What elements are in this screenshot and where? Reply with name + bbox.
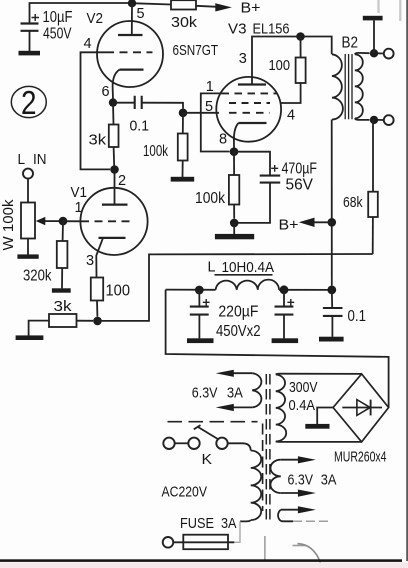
wire 220uF first to ground xyxy=(198,315,200,339)
junction node 220uF second xyxy=(280,285,289,294)
wire node to ground xyxy=(233,223,235,234)
resistor 100 cathode V1 body xyxy=(91,278,103,301)
ground of 100k grid xyxy=(171,177,195,182)
tube V3 envelope xyxy=(216,77,281,142)
svg-text:B+: B+ xyxy=(241,0,261,17)
winding 6.3V right lower xyxy=(278,510,281,521)
wire 300V top lead to bridge top xyxy=(276,373,362,376)
bridge diode triangle xyxy=(357,400,370,416)
scan artifact circle arc next figure xyxy=(298,544,321,563)
resistor 100k grid body xyxy=(178,134,188,161)
tube V1 cathode lead pin 3 xyxy=(96,238,103,278)
wire dot to terminal top xyxy=(378,52,384,54)
svg-text:8: 8 xyxy=(219,132,227,148)
capacitor 470uF plus sign xyxy=(271,165,278,172)
svg-text:FUSE: FUSE xyxy=(180,515,214,532)
tube V1 cathode bar xyxy=(99,237,126,239)
figure number circle 2 xyxy=(11,86,46,117)
junction node plate wire / 100 resistor xyxy=(296,32,305,41)
resistor 320k body xyxy=(57,241,68,268)
B+ arrow mid dot xyxy=(328,218,337,227)
svg-text:L: L xyxy=(18,151,26,168)
wire B2 secondary bottom lead xyxy=(355,118,370,120)
svg-text:100: 100 xyxy=(106,283,131,300)
svg-text:L: L xyxy=(208,259,216,276)
tube V1 plate lead pin 2 xyxy=(114,170,116,205)
switch K terminal 1 xyxy=(163,438,174,449)
terminal circle output top xyxy=(384,49,394,59)
svg-text:6SN7GT: 6SN7GT xyxy=(173,42,219,59)
wire top B+ rail from C 10uF to 30k xyxy=(30,3,172,24)
capacitor 220uF second plus sign xyxy=(287,299,294,306)
bridge diode symbol line xyxy=(342,407,382,409)
svg-text:3A: 3A xyxy=(321,471,337,488)
wire B+ rail drop to main horizontal line xyxy=(166,290,389,408)
primary winding bottom lead xyxy=(240,520,251,521)
wire 6.3V mid top lead xyxy=(281,459,299,461)
potentiometer wiper arrow head xyxy=(36,217,46,225)
svg-text:450Vx2: 450Vx2 xyxy=(216,323,261,340)
resistor 3k V2 cathode body xyxy=(109,125,119,148)
wire V3 plate pin 3 up and right to B2 xyxy=(252,37,332,85)
arrow 6.3V mid bottom xyxy=(298,490,316,497)
resistor 100k cathode body xyxy=(229,175,239,205)
resistor 30k body xyxy=(171,0,196,9)
svg-text:3: 3 xyxy=(239,51,247,67)
ground of 220uF second xyxy=(272,338,299,343)
wire bridge left corner to ground xyxy=(317,408,333,425)
wire 30k to B+ arrow xyxy=(196,6,217,7)
junction node V3 cathode xyxy=(230,147,239,156)
switch K terminal 3 xyxy=(216,438,227,449)
svg-text:5: 5 xyxy=(205,99,213,115)
fuse terminal circle xyxy=(163,537,174,548)
dashed linkage line of switch K xyxy=(168,421,258,423)
junction node 220uF first xyxy=(195,286,204,295)
bottom rule line xyxy=(0,559,402,562)
B+ arrow mid head xyxy=(299,218,315,227)
tube V3 grid3 dashes row xyxy=(229,112,270,114)
tube V1 plate bar xyxy=(102,203,128,205)
svg-text:10H0.4A: 10H0.4A xyxy=(222,259,275,276)
wire V2 grid pin 4 down to V1 plate node xyxy=(81,52,111,169)
svg-text:5: 5 xyxy=(137,6,145,22)
ground of C 10uF xyxy=(19,51,41,56)
junction node secondary top xyxy=(370,49,378,57)
junction node secondary bottom xyxy=(370,116,378,124)
svg-text:W 100k: W 100k xyxy=(1,199,17,251)
wire switch to primary winding xyxy=(228,443,251,450)
switch K terminal 2 xyxy=(188,438,199,449)
wire 300V bottom lead to bridge bottom xyxy=(276,440,362,443)
wire node to 220uF first xyxy=(198,290,200,306)
fuse body rectangle xyxy=(183,535,228,550)
svg-text:100k: 100k xyxy=(195,190,226,207)
wire 3k left to ground xyxy=(29,321,49,336)
capacitor 470uF plates xyxy=(260,176,281,183)
svg-text:EL156: EL156 xyxy=(253,21,290,38)
arrow 6.3V mid top xyxy=(298,456,316,463)
wire input to potentiometer xyxy=(27,179,29,203)
tube V2 plate bar xyxy=(118,34,143,36)
tube V3 grid1 dashes row xyxy=(222,92,278,94)
faint wire primary to fuse xyxy=(234,521,240,542)
capacitor 0.1 filter plates xyxy=(323,308,343,316)
winding 6.3V right middle xyxy=(270,460,280,493)
tube V2 cathode lead pin 6 xyxy=(113,70,120,99)
B+ arrow top right xyxy=(215,3,232,11)
junction node wiper / 320k xyxy=(59,217,68,226)
capacitor 220uF first plates xyxy=(190,307,209,315)
wire 6.3V mid bottom lead xyxy=(281,492,299,494)
transformer B2 primary winding xyxy=(332,54,343,119)
junction node V3 grid xyxy=(179,109,188,118)
svg-text:MUR260x4: MUR260x4 xyxy=(334,449,387,466)
tube V3 cathode bar xyxy=(239,122,267,124)
svg-text:220µF: 220µF xyxy=(218,304,258,321)
resistor 100 screen body xyxy=(296,58,306,84)
tube V3 grid2 dashes row xyxy=(229,102,270,104)
junction node V2 plate / 30k xyxy=(128,0,136,7)
tube V2 envelope xyxy=(97,21,163,87)
wire choke to B+ node xyxy=(279,289,332,291)
svg-text:IN: IN xyxy=(33,151,47,168)
tube V3 cathode lead pin 8 xyxy=(234,123,239,148)
svg-text:0.1: 0.1 xyxy=(130,118,150,135)
heater arrow bottom xyxy=(216,404,234,411)
resistor 68k body xyxy=(368,192,378,217)
choke L winding humps xyxy=(216,280,279,290)
heater winding bottom lead xyxy=(231,406,252,408)
wire between switch terminals xyxy=(175,442,189,444)
wiper wire to grid node xyxy=(45,220,61,222)
transformer B2 core lines xyxy=(345,54,352,119)
wire V3 grid node down to 100k xyxy=(182,113,184,134)
tube V1 envelope xyxy=(80,188,147,255)
svg-text:V1: V1 xyxy=(71,184,88,201)
tube V2 grid dashes xyxy=(106,51,153,53)
svg-text:0.1: 0.1 xyxy=(348,308,367,325)
wire 6.3V lower bottom lead xyxy=(281,520,293,522)
underline of choke label xyxy=(215,274,273,276)
wire V3 grid node to tube pin 5 xyxy=(183,112,219,114)
wire B2 primary bottom down B+ feed xyxy=(331,120,333,286)
svg-text:3k: 3k xyxy=(89,132,107,149)
wire node to 0.1 filter cap xyxy=(331,290,333,308)
ground bar above B2 xyxy=(363,16,383,21)
tube V2 plate lead pin 5 xyxy=(131,3,133,35)
terminal circle L input xyxy=(23,169,33,179)
svg-text:3A: 3A xyxy=(227,385,243,402)
primary winding AC220V xyxy=(251,451,262,521)
capacitor C 10uF plates xyxy=(21,24,39,31)
wire B2 secondary top lead xyxy=(355,53,370,54)
tube V3 plate bar xyxy=(238,83,266,85)
wire node down to 320k xyxy=(62,221,64,241)
svg-text:3: 3 xyxy=(86,253,94,269)
wire node to V1 grid xyxy=(63,220,81,222)
wire cathode node to 470uF top xyxy=(234,152,270,176)
transformer B2 secondary winding xyxy=(355,54,363,118)
scan artifact grey dash under winding xyxy=(293,545,307,547)
svg-text:AC220V: AC220V xyxy=(162,484,208,501)
wire 100 to feedback node xyxy=(96,301,98,317)
svg-text:6.3V: 6.3V xyxy=(288,471,314,488)
ground of 320k xyxy=(52,288,71,292)
page edge border right xyxy=(406,0,408,561)
svg-text:4: 4 xyxy=(287,108,295,124)
svg-text:10µF: 10µF xyxy=(43,9,73,26)
B+ arrow mid shaft xyxy=(314,221,332,223)
heater winding 6.3V top-left xyxy=(252,373,261,407)
svg-text:B2: B2 xyxy=(342,35,359,52)
scan artifact faint vertical mains lead xyxy=(264,536,266,560)
wire 100k grid to ground xyxy=(182,161,184,178)
capacitor 220uF second plates xyxy=(275,307,294,315)
wire V3 pin 1 to cathode node xyxy=(201,93,230,151)
bridge diode cathode bar xyxy=(370,400,372,416)
svg-text:100: 100 xyxy=(269,57,291,74)
wire secondary bottom down to 68k xyxy=(372,120,374,192)
svg-text:4: 4 xyxy=(84,36,92,52)
switch K lever tick xyxy=(194,425,201,429)
wire B+ rail left segment xyxy=(166,289,216,291)
ground of 0.1 filter xyxy=(319,337,344,342)
fuse element line xyxy=(173,541,234,543)
junction node V2 cathode xyxy=(109,98,117,106)
svg-text:68k: 68k xyxy=(343,194,363,211)
wire node to 220uF second xyxy=(283,290,285,307)
wire 6.3V lower bottom lead fading xyxy=(293,520,328,522)
terminal circle output bottom xyxy=(384,115,394,125)
wire 100 screen to V3 pin 4 xyxy=(280,83,301,103)
svg-text:450V: 450V xyxy=(43,26,72,43)
wire 320k to ground xyxy=(61,268,63,288)
svg-text:V3: V3 xyxy=(228,21,247,38)
tube V2 cathode bar xyxy=(120,68,144,70)
wire V2 cathode node to 3k xyxy=(112,103,115,125)
svg-text:2: 2 xyxy=(21,84,37,121)
svg-text:320k: 320k xyxy=(23,268,52,285)
wire 0.1 cap to V3 grid node xyxy=(142,103,183,109)
wire 470uF bottom to cathode resistor node xyxy=(238,183,270,223)
wire C 10uF to ground xyxy=(29,31,31,51)
svg-text:2: 2 xyxy=(118,173,126,189)
bridge rectifier MUR260x4 diamond xyxy=(333,374,389,442)
wire 6.3V lower top lead xyxy=(281,509,299,511)
capacitor 0.1 coupling plates xyxy=(135,96,142,109)
svg-text:K: K xyxy=(202,451,213,468)
potentiometer W 100k body xyxy=(21,203,35,239)
junction node V1 plate xyxy=(110,165,119,174)
svg-text:3A: 3A xyxy=(221,515,237,532)
capacitor C 10uF plus sign xyxy=(32,14,40,21)
svg-text:6: 6 xyxy=(102,84,110,100)
wire 68k bottom to feedback line xyxy=(372,217,374,254)
wire cathode node to coupling cap 0.1 xyxy=(113,102,135,104)
wire secondary top to chassis bar xyxy=(373,21,375,54)
svg-text:300V: 300V xyxy=(289,379,318,396)
wire node to 100 screen xyxy=(300,37,302,58)
wire 3k to V1 plate node xyxy=(113,147,116,169)
capacitor 220uF first plus sign xyxy=(203,299,210,306)
ground of 220uF first xyxy=(187,338,214,343)
svg-text:0.4A: 0.4A xyxy=(289,397,316,414)
svg-text:470µF: 470µF xyxy=(282,161,318,178)
wire dot to terminal bottom xyxy=(378,119,384,121)
dashed linkage vertical xyxy=(262,424,264,512)
junction node cathode ground xyxy=(230,219,239,228)
junction node B+ 0.1 cap xyxy=(327,286,336,295)
svg-text:B+: B+ xyxy=(279,217,299,234)
heater winding top lead xyxy=(231,372,252,374)
wire 220uF second to ground xyxy=(283,315,285,339)
svg-text:100k: 100k xyxy=(143,143,168,160)
wire 3k to node xyxy=(77,320,94,322)
wire pot bottom to ground xyxy=(27,239,29,255)
wire cathode node to 100k cathode xyxy=(233,152,235,175)
scan artifact grey streak top right xyxy=(379,0,401,21)
svg-text:56V: 56V xyxy=(286,177,314,194)
ground of V3 cathode network xyxy=(215,234,254,239)
ground of bridge xyxy=(305,424,329,429)
svg-text:30k: 30k xyxy=(171,14,198,31)
junction node V1 cathode feedback xyxy=(93,317,102,326)
winding 300V 0.4A xyxy=(276,375,286,442)
tube V1 grid dashes xyxy=(81,220,133,222)
switch K lever xyxy=(197,427,217,439)
wire feedback node to vertical riser xyxy=(98,254,373,321)
ground of 3k feedback xyxy=(16,335,44,340)
heater arrow top xyxy=(216,370,234,377)
svg-text:6.3V: 6.3V xyxy=(192,385,218,402)
svg-text:3k: 3k xyxy=(54,298,73,315)
arrow 6.3V lower xyxy=(298,506,316,513)
resistor 3k feedback body xyxy=(49,314,77,327)
ground of potentiometer xyxy=(17,254,38,258)
svg-text:V2: V2 xyxy=(87,10,104,27)
power transformer core dashed lines xyxy=(266,374,270,520)
wire 0.1 filter to ground xyxy=(331,316,333,337)
wire 100k cathode to ground node xyxy=(233,205,235,219)
pink margin strip below rule xyxy=(0,562,408,568)
